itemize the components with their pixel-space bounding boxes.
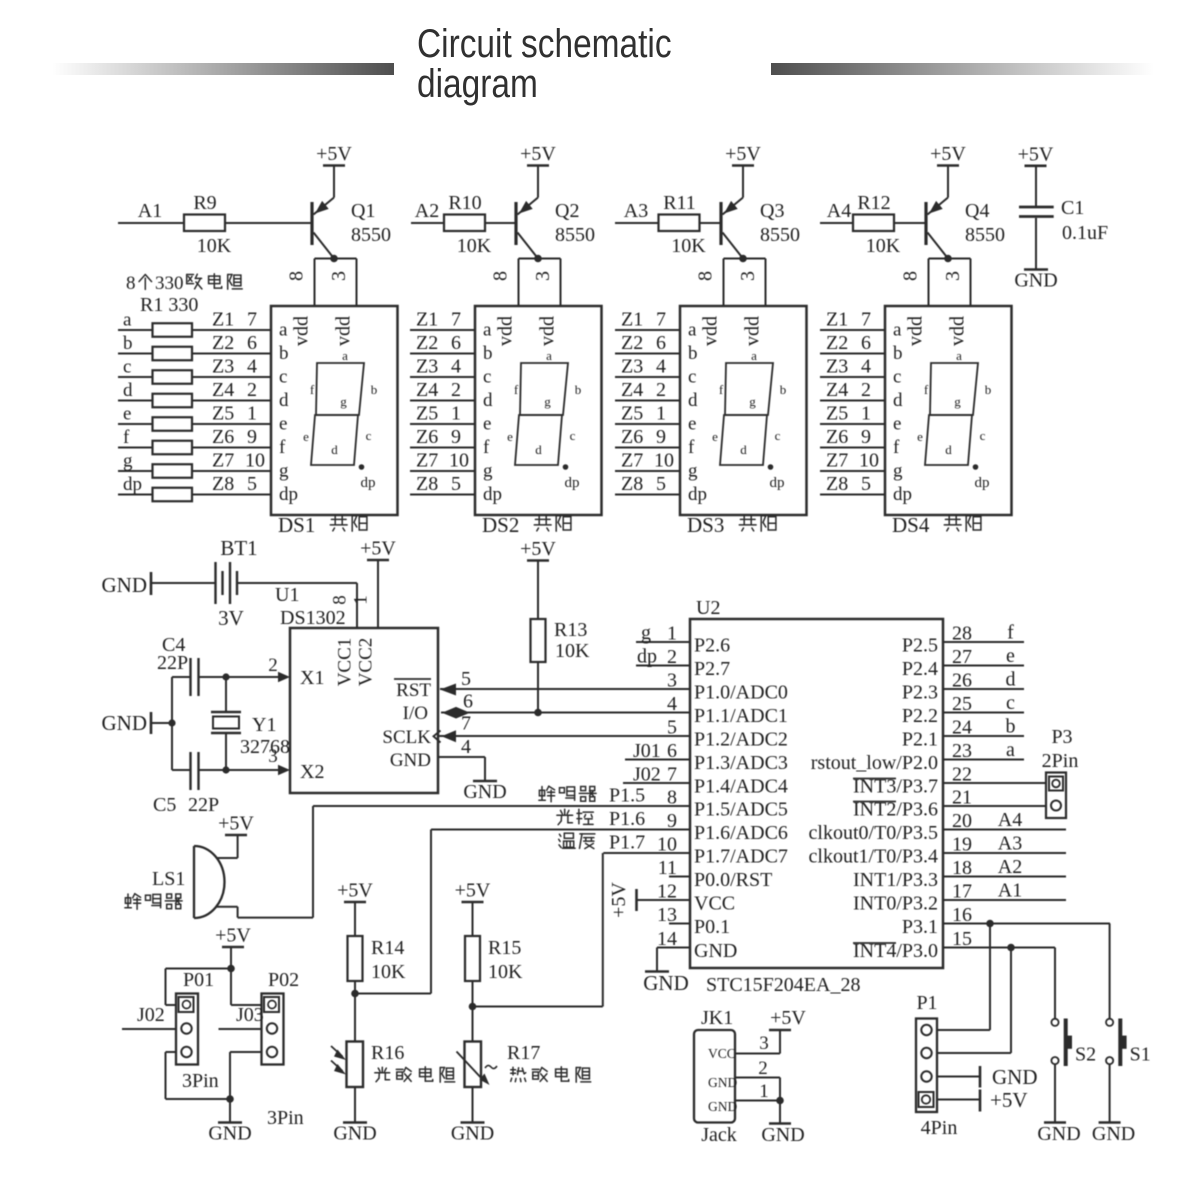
svg-text:3: 3 xyxy=(268,746,278,767)
svg-text:5: 5 xyxy=(451,473,461,495)
svg-text:dp: dp xyxy=(123,474,142,495)
svg-text:A1: A1 xyxy=(998,880,1022,902)
7-segment display DS2 xyxy=(475,306,602,515)
svg-text:8550: 8550 xyxy=(555,224,595,246)
svg-text:a: a xyxy=(893,320,902,341)
wire U2 pin22 to P3 xyxy=(943,782,1046,784)
ground under C1 xyxy=(1024,268,1048,271)
wire R14 to R16 xyxy=(354,981,356,1042)
svg-text:+5V: +5V xyxy=(520,143,556,165)
svg-text:Z2: Z2 xyxy=(212,332,234,354)
svg-text:c: c xyxy=(279,367,287,388)
svg-text:SCLK: SCLK xyxy=(382,727,431,748)
wire A4 input xyxy=(820,222,853,224)
svg-text:Z7: Z7 xyxy=(416,450,438,472)
wire P1 pin4 +5V xyxy=(937,1099,980,1101)
svg-text:Z8: Z8 xyxy=(212,473,234,495)
wire segment f through R1[6] xyxy=(118,447,271,449)
resistor R1 element 3 (330) xyxy=(153,370,193,384)
svg-text:3: 3 xyxy=(759,1033,769,1054)
DS1 digit segments xyxy=(311,363,364,465)
svg-text:JK1: JK1 xyxy=(701,1007,733,1029)
crystal Y1 32768 xyxy=(211,677,290,770)
wire Z5 to DS2 pin e xyxy=(410,423,475,425)
wire collector rail DS3 xyxy=(724,258,766,260)
resistor R1 element 8 (330) xyxy=(153,488,193,502)
svg-text:R15: R15 xyxy=(488,937,521,959)
svg-text:P3.1: P3.1 xyxy=(902,916,938,938)
svg-text:P0.0/RST: P0.0/RST xyxy=(694,869,772,891)
7-segment display DS4 xyxy=(885,306,1012,515)
svg-text:vdd: vdd xyxy=(537,316,559,346)
label buzzer (CJK) xyxy=(539,786,555,802)
wire U2 pin21 to P3 xyxy=(943,805,1046,807)
svg-text:R16: R16 xyxy=(371,1042,404,1064)
svg-text:R10: R10 xyxy=(448,192,481,214)
svg-text:1: 1 xyxy=(351,595,372,605)
svg-text:1: 1 xyxy=(759,1081,769,1102)
wire bus to C4 xyxy=(172,676,191,678)
svg-text:GND: GND xyxy=(761,1124,804,1146)
svg-text:+5V: +5V xyxy=(770,1007,806,1029)
wire JK1 pin2 GND xyxy=(735,1077,780,1079)
svg-text:P2.1: P2.1 xyxy=(902,729,938,751)
label photoresistor (CJK) xyxy=(375,1067,390,1082)
wire to GND xyxy=(779,1101,781,1124)
svg-text:RST: RST xyxy=(396,680,431,701)
wire RST line (U1 pin5 to U2 pin3) xyxy=(440,688,690,690)
svg-text:10K: 10K xyxy=(197,235,232,257)
svg-text:P1.5: P1.5 xyxy=(609,785,645,807)
svg-text:+5V: +5V xyxy=(455,880,491,902)
wire U2 pin25 segment c xyxy=(943,712,1024,714)
svg-text:U1: U1 xyxy=(275,584,299,606)
wire to GND xyxy=(229,1099,231,1123)
wire U2 pin6 (J01) xyxy=(625,759,690,761)
svg-text:R9: R9 xyxy=(193,192,216,214)
wire R11 to Q3 base xyxy=(700,222,722,224)
svg-text:1: 1 xyxy=(451,403,461,425)
wire P02 pin3 to ground rail xyxy=(230,1051,262,1053)
svg-text:10: 10 xyxy=(449,450,469,472)
overline for INT2 xyxy=(853,801,896,803)
svg-text:X1: X1 xyxy=(300,667,324,689)
svg-text:U2: U2 xyxy=(696,597,720,619)
svg-text:e: e xyxy=(279,414,287,435)
wire +5V to R13 xyxy=(537,561,539,620)
wire U2 pin26 segment d xyxy=(943,688,1024,690)
svg-text:8550: 8550 xyxy=(965,224,1005,246)
wire R10 to Q2 base xyxy=(485,222,516,224)
svg-text:A4: A4 xyxy=(827,200,851,222)
svg-text:g: g xyxy=(749,394,756,409)
wire +5V to U1 pin 1 VCC2 xyxy=(377,560,379,628)
svg-text:R11: R11 xyxy=(663,192,696,214)
svg-text:d: d xyxy=(483,390,493,411)
svg-text:dp: dp xyxy=(279,484,298,505)
junction +5V split xyxy=(227,965,235,973)
wire segment a through R1[1] xyxy=(118,329,271,331)
wire to DS4 vdd pin 8 xyxy=(928,259,930,307)
svg-text:2: 2 xyxy=(268,655,278,676)
wire X2 into U1 xyxy=(226,769,279,771)
title decorative bar right xyxy=(771,63,1154,75)
ground for S1 xyxy=(1099,1121,1121,1124)
svg-text:c: c xyxy=(366,428,372,443)
svg-text:c: c xyxy=(483,367,491,388)
svg-text:c: c xyxy=(688,367,696,388)
svg-text:3V: 3V xyxy=(218,606,244,630)
wire +5V to LS1 top xyxy=(237,835,239,858)
svg-text:dp: dp xyxy=(361,475,376,491)
wire Z4 to DS4 pin d xyxy=(820,400,885,402)
wire C4-C5 left bus xyxy=(171,677,173,770)
svg-text:2Pin: 2Pin xyxy=(1042,750,1079,772)
title decorative bar left xyxy=(52,63,394,75)
svg-text:f: f xyxy=(893,437,900,458)
junction R15/R17 to P1.7 xyxy=(469,1003,477,1011)
svg-text:Z1: Z1 xyxy=(416,309,438,331)
resistor R1 element 6 (330) xyxy=(153,441,193,455)
svg-text:GND: GND xyxy=(992,1065,1038,1089)
wire U2 pin28 segment f xyxy=(943,641,1024,643)
svg-text:GND: GND xyxy=(708,1099,737,1114)
svg-text:I/O: I/O xyxy=(403,703,428,724)
svg-text:g: g xyxy=(123,451,133,472)
label LS1 buzzer (CJK) xyxy=(125,894,141,910)
svg-text:S1: S1 xyxy=(1130,1044,1151,1066)
svg-text:Z8: Z8 xyxy=(826,473,848,495)
svg-text:3: 3 xyxy=(667,670,677,692)
svg-text:e: e xyxy=(688,414,696,435)
svg-text:a: a xyxy=(546,348,552,363)
svg-text:Z6: Z6 xyxy=(621,426,643,448)
svg-text:Z6: Z6 xyxy=(212,426,234,448)
wire segment b through R1[2] xyxy=(118,353,271,355)
svg-text:GND: GND xyxy=(1092,1123,1135,1145)
wire Z4 to DS3 pin d xyxy=(615,400,680,402)
wire to DS2 vdd pin 8 xyxy=(518,259,520,307)
wire U2 pin13 stub xyxy=(669,923,690,925)
wire A2 input xyxy=(411,222,444,224)
wire BT1 to U1 VCC1 xyxy=(237,582,357,584)
wire Z3 to DS2 pin c xyxy=(410,376,475,378)
svg-text:dp: dp xyxy=(565,475,580,491)
svg-text:d: d xyxy=(331,442,338,457)
svg-text:Z4: Z4 xyxy=(416,379,438,401)
resistor R10 10K xyxy=(444,215,485,232)
svg-text:J02: J02 xyxy=(137,1004,165,1026)
svg-text:2: 2 xyxy=(758,1058,768,1079)
svg-text:4Pin: 4Pin xyxy=(921,1117,958,1139)
wire U2 pin15 P3.0 to S2 xyxy=(943,947,1055,949)
svg-text:INT1/P3.3: INT1/P3.3 xyxy=(853,869,938,891)
svg-text:GND: GND xyxy=(463,781,506,803)
svg-text:P1.6/ADC6: P1.6/ADC6 xyxy=(694,822,788,844)
svg-text:d: d xyxy=(740,442,747,457)
wire +5V to R15 xyxy=(472,902,474,936)
svg-text:+5V: +5V xyxy=(215,925,251,947)
svg-text:8: 8 xyxy=(286,271,308,281)
wire U2 pin10 temperature net xyxy=(603,852,690,854)
svg-text:dp: dp xyxy=(893,484,912,505)
wire Z1 to DS4 pin a xyxy=(820,329,885,331)
svg-text:Z4: Z4 xyxy=(212,379,234,401)
svg-text:A2: A2 xyxy=(415,200,439,222)
ground for S2 xyxy=(1044,1121,1066,1124)
junction GND bus xyxy=(168,719,175,726)
svg-text:A2: A2 xyxy=(998,856,1022,878)
svg-text:Z6: Z6 xyxy=(416,426,438,448)
svg-text:6: 6 xyxy=(451,332,461,354)
svg-text:8: 8 xyxy=(490,271,512,281)
svg-text:f: f xyxy=(688,437,695,458)
svg-text:f: f xyxy=(310,382,315,397)
svg-text:c: c xyxy=(123,357,131,378)
svg-text:P0.1: P0.1 xyxy=(694,916,730,938)
svg-text:A3: A3 xyxy=(998,833,1022,855)
svg-text:b: b xyxy=(123,333,133,354)
svg-text:a: a xyxy=(123,310,132,331)
svg-text:P1.5/ADC5: P1.5/ADC5 xyxy=(694,799,788,821)
+5V power for JK1 xyxy=(769,1029,791,1032)
svg-text:R17: R17 xyxy=(507,1042,540,1064)
svg-text:dp: dp xyxy=(770,475,785,491)
svg-text:f: f xyxy=(719,382,724,397)
wire P1 pin1 to P3.1 xyxy=(937,1029,990,1031)
wire I/O line (U1 pin6 to U2 pin4) xyxy=(441,712,690,714)
svg-text:C5: C5 xyxy=(153,794,176,816)
wire LS1 bottom terminal xyxy=(216,906,238,908)
wire +5V to Q1 emitter xyxy=(333,166,335,198)
svg-text:4: 4 xyxy=(861,356,871,378)
wire P1 pin3 GND xyxy=(937,1076,980,1078)
wire to DS4 vdd pin 3 xyxy=(970,259,972,307)
svg-text:g: g xyxy=(483,461,493,482)
svg-text:J01: J01 xyxy=(633,740,661,762)
label thermistor (CJK) xyxy=(511,1067,526,1082)
DS3 digit segments xyxy=(720,363,773,465)
wire JK1 pin1 GND xyxy=(735,1100,780,1102)
wire R9 to Q1 base xyxy=(225,222,312,224)
capacitor C4 22P xyxy=(157,634,226,696)
wire U2 pin16 P3.1 to S1 xyxy=(943,923,1110,925)
svg-text:a: a xyxy=(956,348,962,363)
battery BT1 3V xyxy=(102,536,358,630)
svg-text:Z2: Z2 xyxy=(826,332,848,354)
svg-text:P3: P3 xyxy=(1051,726,1072,748)
wire U1 GND pin4 xyxy=(438,756,485,758)
svg-text:6: 6 xyxy=(247,332,257,354)
pushbutton switch S1 xyxy=(1092,924,1151,1146)
svg-text:J03: J03 xyxy=(236,1004,264,1026)
svg-text:c: c xyxy=(980,428,986,443)
svg-text:22P: 22P xyxy=(157,652,188,674)
svg-text:Z5: Z5 xyxy=(621,403,643,425)
svg-text:GND: GND xyxy=(102,711,148,735)
svg-text:g: g xyxy=(954,394,961,409)
wire +5V down xyxy=(230,947,232,969)
wire LS1 to P1.5 net xyxy=(238,917,313,919)
junction P3.0 to P1 pin2 xyxy=(1007,944,1015,952)
svg-text:X2: X2 xyxy=(300,761,324,783)
svg-text:2: 2 xyxy=(247,379,257,401)
svg-text:9: 9 xyxy=(247,426,257,448)
svg-text:vdd: vdd xyxy=(742,316,764,346)
svg-text:R1 330: R1 330 xyxy=(140,294,198,316)
svg-text:P1.6: P1.6 xyxy=(609,808,645,830)
svg-text:DS1302: DS1302 xyxy=(280,607,346,629)
svg-text:5: 5 xyxy=(247,473,257,495)
wire X1 into U1 xyxy=(226,676,279,678)
wire U2 pin20 net A4 xyxy=(943,829,1066,831)
junction JK1 grounds xyxy=(776,1097,784,1105)
wire JK1 pin3 VCC to +5V xyxy=(735,1053,780,1055)
svg-text:P1.3/ADC3: P1.3/ADC3 xyxy=(694,752,788,774)
wire +5V to C1 xyxy=(1035,166,1037,207)
svg-text:J02: J02 xyxy=(633,764,661,786)
node Q3 collector junction xyxy=(739,255,747,263)
svg-text:P1.4/ADC4: P1.4/ADC4 xyxy=(694,776,788,798)
svg-text:vdd: vdd xyxy=(333,316,355,346)
svg-text:P2.2: P2.2 xyxy=(902,705,938,727)
svg-text:7: 7 xyxy=(656,309,666,331)
wire Z1 to DS2 pin a xyxy=(410,329,475,331)
wire U2 pin11 stub xyxy=(669,876,690,878)
svg-text:g: g xyxy=(893,461,903,482)
svg-text:DS4: DS4 xyxy=(892,513,930,537)
svg-text:b: b xyxy=(575,382,582,397)
wire U2 pin1 (g) xyxy=(636,641,690,643)
svg-text:1: 1 xyxy=(656,403,666,425)
node Q4 collector junction xyxy=(944,255,952,263)
connector JK1 power jack xyxy=(694,1007,806,1146)
wire U2 pin17 net A1 xyxy=(943,899,1066,901)
wire U2 pin9 light-sense net xyxy=(431,829,690,831)
wire collector rail DS4 xyxy=(929,258,971,260)
svg-text:b: b xyxy=(780,382,787,397)
svg-text:P1: P1 xyxy=(916,992,937,1014)
svg-text:A4: A4 xyxy=(998,809,1022,831)
wire Z6 to DS2 pin f xyxy=(410,447,475,449)
wire Z7 to DS3 pin g xyxy=(615,470,680,472)
wire GND to bus xyxy=(151,722,172,724)
svg-text:2: 2 xyxy=(451,379,461,401)
svg-text:10K: 10K xyxy=(371,961,406,983)
svg-text:b: b xyxy=(483,343,493,364)
svg-text:Z5: Z5 xyxy=(212,403,234,425)
svg-text:VCC1: VCC1 xyxy=(335,638,356,687)
svg-text:Z6: Z6 xyxy=(826,426,848,448)
svg-text:f: f xyxy=(123,427,130,448)
ground for R17 xyxy=(461,1121,485,1124)
wire divider tap to U2 P1.6 xyxy=(355,993,431,995)
svg-text:GND: GND xyxy=(1014,270,1057,292)
svg-text:7: 7 xyxy=(451,309,461,331)
svg-text:a: a xyxy=(342,348,348,363)
svg-text:VCC: VCC xyxy=(694,893,735,915)
svg-text:GND: GND xyxy=(208,1123,251,1145)
svg-text:2: 2 xyxy=(861,379,871,401)
svg-text:DS2: DS2 xyxy=(482,513,519,537)
svg-text:Z7: Z7 xyxy=(826,450,848,472)
svg-text:vdd: vdd xyxy=(947,316,969,346)
resistor R14 10K xyxy=(337,880,406,1042)
svg-text:10: 10 xyxy=(654,450,674,472)
svg-text:g: g xyxy=(688,461,698,482)
svg-text:10K: 10K xyxy=(671,235,706,257)
svg-text:Z4: Z4 xyxy=(621,379,643,401)
svg-text:P1.0/ADC0: P1.0/ADC0 xyxy=(694,682,788,704)
svg-text:GND: GND xyxy=(390,750,431,771)
svg-text:f: f xyxy=(483,437,490,458)
label temperature (CJK) xyxy=(559,833,575,848)
svg-text:P2.3: P2.3 xyxy=(902,682,938,704)
svg-text:9: 9 xyxy=(656,426,666,448)
svg-text:S2: S2 xyxy=(1075,1044,1096,1066)
svg-text:e: e xyxy=(917,429,923,444)
svg-text:10: 10 xyxy=(245,450,265,472)
svg-text:Z3: Z3 xyxy=(416,356,438,378)
wire Z6 to DS4 pin f xyxy=(820,447,885,449)
svg-text:INT0/P3.2: INT0/P3.2 xyxy=(853,893,938,915)
svg-text:d: d xyxy=(123,380,133,401)
wire +5V to Q4 emitter xyxy=(947,166,949,198)
svg-text:3: 3 xyxy=(532,271,554,281)
IC U1 DS1302 xyxy=(275,538,438,794)
svg-text:rstout_low/P2.0: rstout_low/P2.0 xyxy=(811,752,938,774)
svg-text:5: 5 xyxy=(861,473,871,495)
wire J03 to P02 pin2 xyxy=(219,1028,262,1030)
svg-text:6: 6 xyxy=(861,332,871,354)
svg-text:Z2: Z2 xyxy=(621,332,643,354)
svg-text:+5V: +5V xyxy=(930,143,966,165)
svg-text:8550: 8550 xyxy=(351,224,391,246)
svg-text:+5V: +5V xyxy=(520,538,556,560)
wire R15 to R17 xyxy=(472,981,474,1042)
svg-text:b: b xyxy=(1006,716,1016,738)
svg-text:3: 3 xyxy=(328,271,350,281)
svg-text:6: 6 xyxy=(656,332,666,354)
svg-text:3: 3 xyxy=(942,271,964,281)
svg-text:Z2: Z2 xyxy=(416,332,438,354)
wire U2 pin14 GND xyxy=(657,947,690,949)
junction R14/R16 to P1.6 xyxy=(351,990,359,998)
connector P02 3Pin xyxy=(262,969,304,1129)
7-segment display DS1 xyxy=(271,306,398,515)
wire Z4 to DS2 pin d xyxy=(410,400,475,402)
svg-text:7: 7 xyxy=(861,309,871,331)
wire Z1 to DS3 pin a xyxy=(615,329,680,331)
wire Z8 to DS4 pin dp xyxy=(820,494,885,496)
svg-text:GND: GND xyxy=(1037,1123,1080,1145)
svg-text:P2.5: P2.5 xyxy=(902,635,938,657)
wire U2 pin2 (dp) xyxy=(636,665,690,667)
svg-text:g: g xyxy=(641,622,651,644)
svg-text:a: a xyxy=(279,320,288,341)
svg-text:P1.7/ADC7: P1.7/ADC7 xyxy=(694,846,788,868)
wire divider tap to U2 P1.7 xyxy=(473,1006,603,1008)
svg-text:VCC2: VCC2 xyxy=(356,638,377,687)
svg-text:330: 330 xyxy=(155,273,184,294)
svg-text:d: d xyxy=(535,442,542,457)
svg-text:1: 1 xyxy=(861,403,871,425)
resistor R15 10K xyxy=(455,880,523,1042)
wire A3 input xyxy=(615,222,659,224)
svg-text:b: b xyxy=(985,382,992,397)
svg-text:GND: GND xyxy=(643,971,689,995)
svg-text:Z8: Z8 xyxy=(416,473,438,495)
